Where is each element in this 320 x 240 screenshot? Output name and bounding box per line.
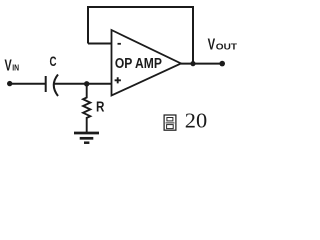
svg-text:C: C (50, 54, 57, 69)
svg-text:OUT: OUT (216, 42, 238, 52)
svg-text:OP AMP: OP AMP (115, 56, 162, 72)
svg-text:IN: IN (12, 62, 19, 72)
svg-text:V: V (208, 37, 216, 54)
svg-text:20: 20 (185, 108, 207, 132)
svg-text:V: V (5, 57, 13, 74)
svg-text:R: R (96, 100, 105, 116)
